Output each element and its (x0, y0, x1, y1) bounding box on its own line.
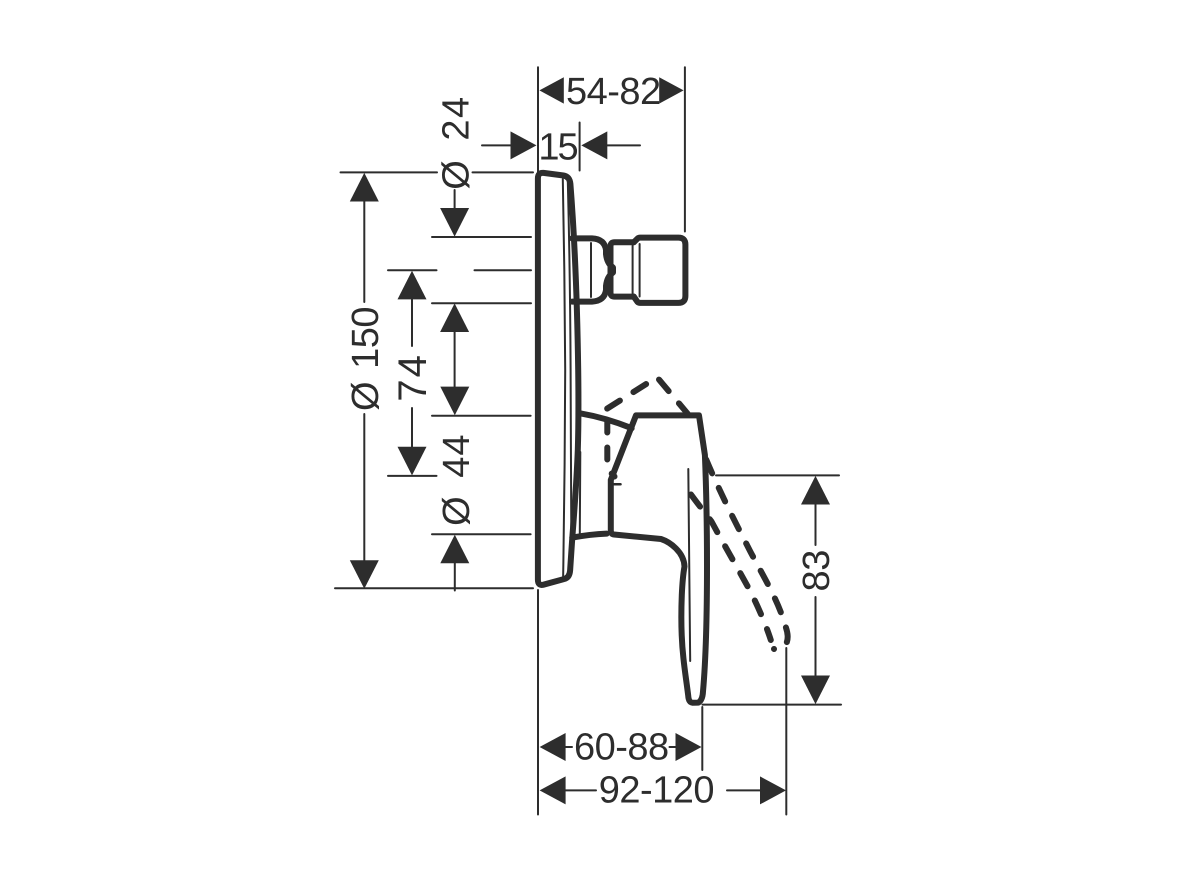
svg-text:54-82: 54-82 (566, 71, 661, 113)
dashed boss left edge (607, 421, 614, 477)
svg-text:92-120: 92-120 (599, 769, 714, 811)
plate inner contour line B (568, 181, 572, 542)
wall extension line lower (537, 590, 539, 815)
extension line below lever tip (60-88) (701, 707, 703, 770)
dim O150 arrows and line (350, 173, 379, 589)
dim 15 line left tail (482, 144, 511, 146)
svg-text:74: 74 (391, 353, 435, 402)
escutcheon plate outline (538, 173, 579, 585)
dim 92-120 arrows (540, 776, 786, 804)
dim 74 arrows and line (398, 271, 427, 476)
dim 83 ticks (716, 474, 839, 476)
nut face line (632, 246, 634, 294)
lever face line (688, 469, 690, 661)
dim 15 line right tail (607, 144, 640, 146)
dim 74 ticks (388, 269, 437, 271)
cartridge spigot (634, 238, 686, 303)
handle body and lever (611, 415, 707, 702)
dim O150 top tick (341, 171, 438, 173)
svg-text:15: 15 (538, 127, 577, 169)
cartridge nut (611, 242, 634, 296)
dim 15 arrows (511, 131, 608, 159)
extension line right (92-120) (785, 648, 787, 815)
dashed handle inner edge (691, 495, 771, 641)
svg-text:60-88: 60-88 (574, 727, 669, 769)
dashed handle peak outline (607, 377, 687, 413)
svg-text:Ø 44: Ø 44 (436, 434, 478, 526)
dim 54-82 arrows (539, 77, 683, 103)
cartridge sleeve (572, 238, 613, 301)
extension line right of 54-82 (684, 67, 686, 231)
dashed handle outer edge (706, 460, 787, 650)
extension line of 15 at plate front (579, 123, 581, 171)
svg-text:83: 83 (796, 550, 838, 591)
pivot tick (613, 483, 621, 486)
plate inner contour line A (563, 179, 565, 581)
svg-text:Ø 150: Ø 150 (345, 307, 387, 411)
wall extension line left (x=538) (537, 67, 539, 172)
svg-text:Ø 24: Ø 24 (436, 95, 478, 189)
sleeve inner line (590, 243, 592, 297)
dim O150 bottom tick (335, 587, 533, 589)
dim 83 arrows and line (801, 476, 830, 704)
spigot flange line (639, 244, 641, 297)
rosette base edge line (579, 452, 582, 533)
rosette dome top arc (581, 413, 632, 428)
dim O44 arrows, ticks (440, 387, 469, 564)
dim 60-88 arrows (540, 733, 702, 761)
rosette dome bottom arc (572, 534, 607, 538)
cartridge axis tick (475, 269, 532, 271)
dim O24 arrows, tails, ticks (454, 190, 456, 210)
